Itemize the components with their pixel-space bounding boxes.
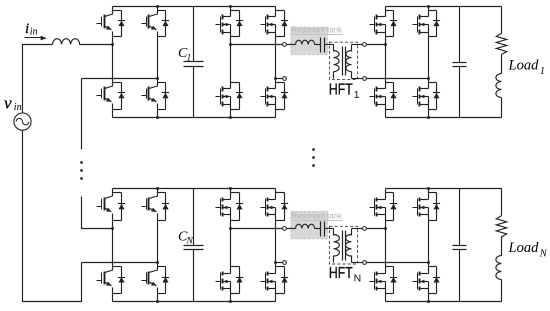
node: secondary lower terminal module N: [363, 261, 367, 265]
wire: DC-link top rail module 1: [113, 6, 276, 8]
wire: load bottom lead module N: [501, 280, 503, 302]
junction: DAB leg2 midpoint module 1: [274, 77, 277, 80]
transistor: MOSFET rectifier leg2 top, module 1: [413, 7, 441, 79]
transistor: MOSFET DAB bridge leg1 top, module N: [216, 189, 244, 229]
wire: output bottom rail module 1: [386, 117, 502, 119]
wire: DC-link bottom rail module N: [113, 301, 276, 303]
wire: DAB bridge lower output module 1: [276, 78, 283, 80]
junction: top rail leg2 module N: [156, 187, 159, 190]
node: primary upper terminal module 1: [283, 43, 287, 47]
junction: module N input node: [111, 227, 114, 230]
wire: tank inductor to capacitor module N: [315, 228, 321, 230]
wire: source return path: [23, 131, 82, 302]
wire: output top rail module 1: [386, 6, 502, 8]
svg-text:in: in: [30, 26, 38, 37]
junction: output bottom rail leg2 module 1: [427, 116, 430, 119]
wire: terminal to rectifier leg1 module N: [367, 228, 386, 230]
junction: DAB leg1 midpoint module N: [229, 227, 232, 230]
wire: DAB bridge lower output module N: [276, 262, 283, 264]
wire: load top lead module N: [501, 189, 503, 216]
transformer HFTN primary winding: [333, 229, 335, 236]
wire: load bottom lead module 1: [501, 98, 503, 118]
transistor: MOSFET rectifier leg2 bottom, module 1: [413, 79, 441, 118]
junction: top rail DAB leg1 module 1: [229, 5, 232, 8]
transistor: MOSFET DAB bridge leg2 bottom, module 1: [261, 79, 289, 118]
inductor: LoadN inductive part: [496, 256, 502, 280]
transformer HFT1 boundary (dashed): [329, 42, 357, 79]
transistor: MOSFET rectifier leg1 bottom, module N: [370, 229, 398, 302]
transformer HFTN core: [342, 231, 344, 261]
transformer HFT1 secondary winding: [351, 45, 353, 52]
junction: module 1 input node: [111, 43, 114, 46]
wire: secondary lower lead module 1: [352, 78, 363, 80]
transformer HFT1 primary winding: [333, 45, 335, 52]
transistor: MOSFET DAB bridge leg2 top, module N: [261, 189, 289, 263]
transistor: MOSFET rectifier leg1 bottom, module 1: [370, 45, 398, 118]
wire: DAB bridge upper output module N: [231, 228, 283, 230]
inductor: resonant tank module 1: [296, 40, 315, 44]
wire: output capacitor bottom lead module 1: [459, 67, 461, 118]
junction: bottom rail DAB leg1 module 1: [229, 116, 232, 119]
svg-text:in: in: [14, 102, 22, 113]
resistor: Load1 resistive part: [496, 33, 506, 54]
junction: leg2 midpoint module 1: [156, 77, 159, 80]
wire: terminal to rectifier leg2 module 1: [367, 78, 429, 80]
inductor: resonant tank module N: [296, 224, 315, 228]
transistor: MOSFET rectifier leg1 top, module N: [370, 189, 398, 229]
wire: terminal to rectifier leg1 module 1: [367, 44, 386, 46]
current arrow i_in: [25, 37, 44, 39]
capacitor: output filter module 1: [453, 62, 467, 64]
capacitor CN (DC link): [184, 245, 204, 247]
wire: module 1 output b down (series link, upper): [81, 79, 83, 150]
wire: output top rail module N: [386, 188, 502, 190]
transistor: IGBT input bridge leg1 bottom, module N: [97, 229, 126, 302]
node: secondary upper terminal module 1: [363, 43, 367, 47]
wire: terminal to rectifier leg2 module N: [367, 262, 429, 264]
node: secondary upper terminal module N: [363, 227, 367, 231]
wire: output capacitor top lead module N: [459, 189, 461, 246]
svg-text:Load: Load: [508, 240, 540, 256]
junction: DAB leg2 midpoint module N: [274, 261, 277, 264]
wire: load middle lead module 1: [501, 55, 503, 74]
svg-text:N: N: [354, 272, 362, 284]
svg-text:N: N: [539, 249, 548, 260]
wire: DAB bridge upper output module 1: [231, 44, 283, 46]
svg-text:i: i: [25, 21, 29, 37]
resistor: LoadN resistive part: [496, 216, 506, 237]
capacitor: resonant tank module N: [320, 222, 322, 237]
wire: inductor to module 1 input: [80, 44, 113, 46]
transistor: IGBT input bridge leg1 top, module 1: [97, 7, 126, 45]
svg-text:1: 1: [187, 53, 192, 63]
junction: bottom rail leg2 module 1: [156, 116, 159, 119]
svg-text:v: v: [4, 94, 12, 113]
junction: top rail leg2 module 1: [156, 5, 159, 8]
junction: rectifier leg1 midpoint module 1: [384, 43, 387, 46]
junction: output bottom rail leg2 module N: [427, 300, 430, 303]
transistor: IGBT input bridge leg2 top, module N: [142, 189, 170, 263]
junction: DAB leg1 midpoint module 1: [229, 43, 232, 46]
node: secondary lower terminal module 1: [363, 77, 367, 81]
wire: DC-link bottom rail module 1: [113, 117, 276, 119]
wire: terminal to tank inductor module 1: [287, 44, 296, 46]
junction: leg2 midpoint module N: [156, 261, 159, 264]
wire: source to input inductor: [23, 45, 53, 114]
wire: load top lead module 1: [501, 7, 503, 34]
wire: output capacitor top lead module 1: [459, 7, 461, 63]
wire: series link lower to module N input: [82, 197, 113, 229]
wire: tank capacitor to transformer module N: [325, 228, 334, 230]
transformer HFTN secondary winding: [351, 229, 353, 236]
inductor: input filter: [53, 39, 80, 45]
wire: tank capacitor to transformer module 1: [325, 44, 334, 46]
wire: secondary lower lead module N: [352, 262, 363, 264]
wire: DC-link capacitor bottom lead module N: [193, 250, 195, 302]
junction: rectifier leg2 midpoint module 1: [427, 77, 430, 80]
capacitor C1 (DC link): [184, 61, 204, 63]
transistor: IGBT input bridge leg2 bottom, module 1: [142, 79, 170, 118]
capacitor: resonant tank module 1: [320, 38, 322, 53]
inductor: Load1 inductive part: [496, 74, 502, 98]
svg-text:Resonant tank: Resonant tank: [291, 24, 343, 34]
transformer HFT1 core: [342, 47, 344, 76]
transistor: MOSFET rectifier leg1 top, module 1: [370, 7, 398, 45]
svg-text:1: 1: [540, 66, 545, 77]
transistor: IGBT input bridge leg1 top, module N: [97, 189, 126, 229]
junction: output top rail leg2 module N: [427, 187, 430, 190]
transistor: MOSFET DAB bridge leg1 bottom, module 1: [216, 45, 244, 118]
wire: DC-link top rail module N: [113, 188, 276, 190]
AC source v_in: [14, 113, 31, 130]
junction: bottom rail leg2 module N: [156, 300, 159, 303]
svg-text:HFT: HFT: [329, 265, 353, 282]
transistor: MOSFET DAB bridge leg2 top, module 1: [261, 7, 289, 79]
junction: bottom rail DAB leg1 module N: [229, 300, 232, 303]
svg-text:1: 1: [354, 89, 360, 101]
svg-text:N: N: [186, 237, 194, 247]
svg-text:Load: Load: [508, 58, 540, 74]
node: ellipsis dots (more modules, middle): [312, 148, 315, 151]
junction: output top rail leg2 module 1: [427, 5, 430, 8]
capacitor: output filter module N: [453, 245, 467, 247]
svg-text:HFT: HFT: [329, 82, 353, 99]
node: primary lower terminal module 1: [283, 77, 287, 81]
wire: tank inductor to capacitor module 1: [315, 44, 321, 46]
transistor: MOSFET rectifier leg2 top, module N: [413, 189, 441, 263]
resonant tank shaded region module N: [291, 211, 328, 239]
transistor: IGBT input bridge leg1 bottom, module 1: [97, 45, 126, 118]
wire: DC-link capacitor top lead module 1: [193, 7, 195, 62]
wire: output capacitor bottom lead module N: [459, 250, 461, 302]
wire: output bottom rail module N: [386, 301, 502, 303]
junction: rectifier leg1 midpoint module N: [384, 227, 387, 230]
junction: rectifier leg2 midpoint module N: [427, 261, 430, 264]
wire: terminal to tank inductor module N: [287, 228, 296, 230]
node: ellipsis dots (more modules, left): [80, 161, 83, 164]
transistor: MOSFET rectifier leg2 bottom, module N: [413, 263, 441, 302]
transistor: IGBT input bridge leg2 top, module 1: [142, 7, 170, 79]
wire: secondary upper lead module N: [352, 228, 363, 230]
junction: top rail DAB leg1 module N: [229, 187, 232, 190]
wire: leg2 midpoint rail module N: [82, 262, 158, 264]
transistor: IGBT input bridge leg2 bottom, module N: [142, 263, 170, 302]
transistor: MOSFET DAB bridge leg1 bottom, module N: [216, 229, 244, 302]
transformer HFTN boundary (dashed): [329, 226, 357, 264]
transistor: MOSFET DAB bridge leg2 bottom, module N: [261, 263, 289, 302]
node: primary upper terminal module N: [283, 227, 287, 231]
wire: secondary upper lead module 1: [352, 44, 363, 46]
transistor: MOSFET DAB bridge leg1 top, module 1: [216, 7, 244, 45]
svg-text:Resonant tank: Resonant tank: [291, 211, 343, 221]
resonant tank shaded region module 1: [291, 27, 328, 55]
wire: leg2 midpoint rail module 1: [82, 78, 158, 80]
wire: DC-link capacitor top lead module N: [193, 189, 195, 246]
wire: load middle lead module N: [501, 237, 503, 256]
node: primary lower terminal module N: [283, 261, 287, 265]
wire: DC-link capacitor bottom lead module 1: [193, 67, 195, 118]
